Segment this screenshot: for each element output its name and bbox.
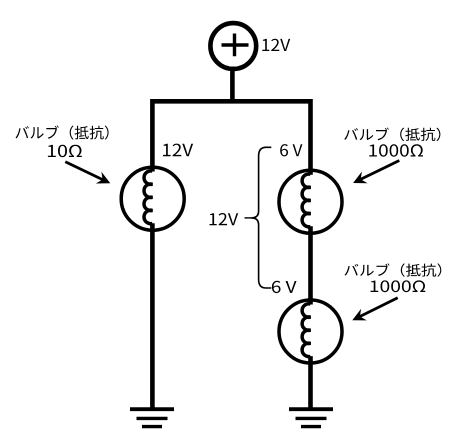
annotation arrow (right top bulb) — [361, 161, 400, 180]
annotation text バルブ（抵抗） (left) — [16, 126, 109, 140]
tick from 12V label to brace — [245, 217, 253, 219]
wire bulb L2 to bulb L3 — [308, 226, 313, 304]
wire top rail with drops to both branches — [152, 101, 310, 174]
wire source to rail — [230, 67, 235, 103]
annotation text バルブ（抵抗） (right top) — [344, 128, 440, 142]
annotation arrow (left bulb) — [65, 162, 102, 180]
voltage source V1 circle — [210, 23, 256, 69]
bulb L1 filament coil — [144, 171, 152, 224]
wire left bulb to ground — [150, 223, 155, 411]
annotation text 10Ω — [48, 145, 82, 158]
voltage source V1 plus sign — [222, 34, 249, 57]
bulb L3 circle — [279, 300, 342, 363]
bulb L1 circle — [121, 167, 184, 230]
annotation arrow (right bottom bulb) — [360, 298, 398, 317]
label 12V (brace) — [210, 213, 239, 225]
brace for 12V span — [252, 147, 272, 288]
ground (right) — [289, 407, 333, 411]
annotation text 1000Ω (bottom) — [371, 280, 426, 292]
bulb L2 circle — [279, 170, 342, 233]
label 12V (source) — [262, 39, 290, 51]
annotation text 1000Ω (top) — [369, 144, 423, 156]
bulb L3 filament coil — [302, 304, 310, 357]
bulb L2 filament coil — [302, 174, 310, 227]
wire bulb L3 to ground — [308, 356, 313, 411]
label 6 V (top) — [280, 144, 302, 156]
annotation text バルブ（抵抗） (right bottom) — [345, 263, 442, 276]
label 6 V (bottom) — [272, 281, 297, 293]
ground (left) — [130, 407, 174, 411]
label 12V (left bulb) — [163, 144, 193, 157]
